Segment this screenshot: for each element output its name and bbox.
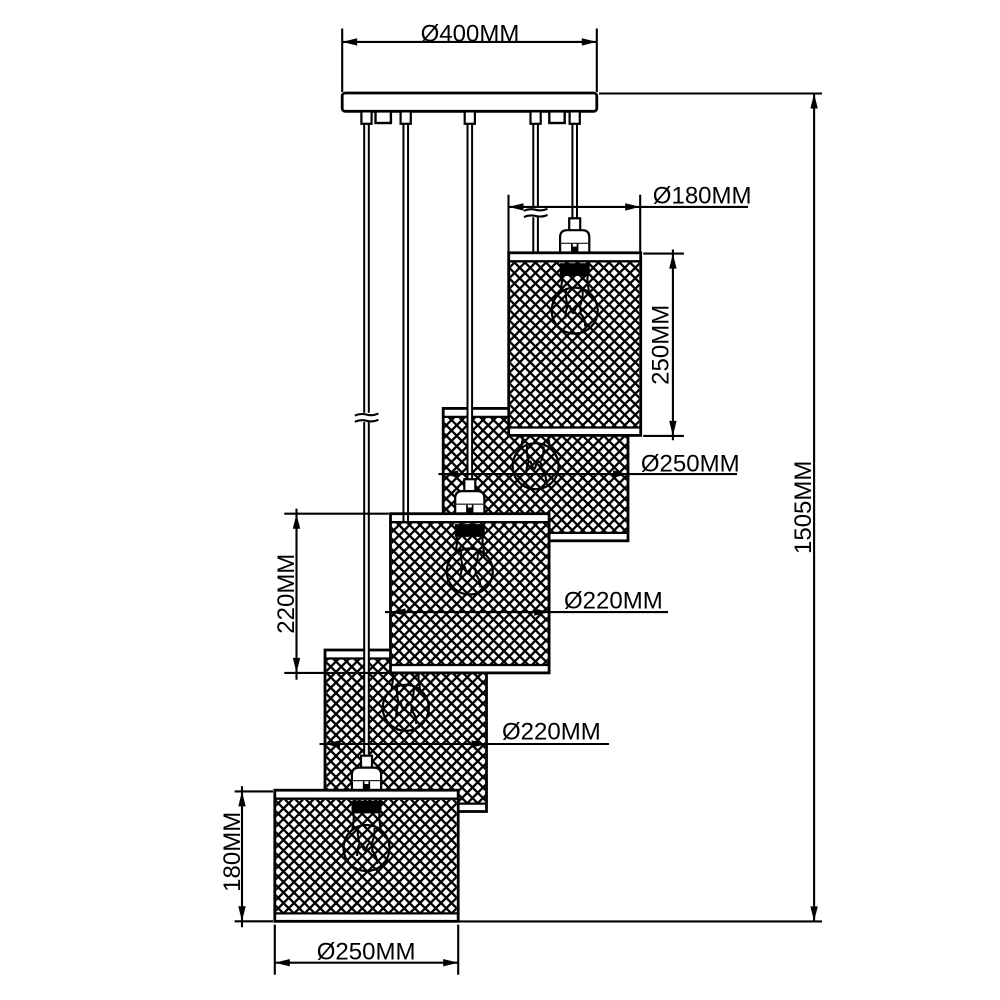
- dimension D250MM (bottom) extension lines: [275, 925, 458, 975]
- shade S3 bulb: [456, 537, 457, 553]
- dimension D250MM (S2) line: [439, 473, 738, 475]
- shade S5 body: [275, 790, 458, 921]
- svg-text:Ø180MM: Ø180MM: [653, 183, 752, 210]
- svg-text:180MM: 180MM: [219, 812, 246, 892]
- shade S1 mesh: [510, 262, 639, 426]
- shade S1 bands: [509, 261, 641, 427]
- cord B stub over S3 top band: [403, 512, 408, 522]
- cord B (to shade S4): [403, 123, 408, 616]
- shade S1 bulb: [561, 276, 562, 292]
- cord E (to shade S1): [572, 123, 577, 219]
- shade S4 bands: [325, 659, 487, 804]
- shade S4 cap (hidden behind S3): [400, 616, 411, 628]
- dimension D400MM line: [342, 41, 597, 43]
- shade S5 bands: [275, 799, 458, 914]
- shade S5 mesh: [276, 800, 457, 913]
- shade S1 cap: [569, 218, 580, 230]
- cord D break symbol: [524, 208, 548, 217]
- dimension 250MM line: [672, 250, 674, 441]
- shade S2 bands: [443, 417, 628, 533]
- dimension 220MM line: [295, 509, 297, 680]
- shade S4 socket: [391, 660, 421, 673]
- shade S4 bulb: [392, 673, 393, 689]
- svg-text:220MM: 220MM: [273, 554, 300, 634]
- dimension 180MM line: [241, 786, 243, 927]
- cord D (to shade S2): [533, 123, 538, 374]
- canopy cord grip: [361, 111, 371, 123]
- cord C (to shade S3): [468, 123, 473, 480]
- canopy cord grip: [401, 111, 411, 123]
- dimension D220MM (S3) line: [385, 611, 668, 613]
- shade S2 body: [443, 408, 628, 540]
- cord A break symbol: [355, 413, 379, 422]
- shade S5 socket: [352, 801, 382, 814]
- canopy cord grip: [465, 111, 475, 123]
- shade S2 bulb: [522, 432, 523, 448]
- dimension 1505MM extension lines: [460, 94, 823, 922]
- svg-text:Ø400MM: Ø400MM: [421, 20, 520, 47]
- dimension D220MM (S4) line: [320, 743, 610, 745]
- shade S1 body: [509, 253, 641, 436]
- shade S4 mesh: [326, 660, 485, 803]
- svg-text:1505MM: 1505MM: [790, 461, 817, 554]
- shade S3 body: [391, 514, 550, 673]
- dimension 1505MM line: [813, 94, 815, 922]
- canopy hook bracket: [549, 111, 564, 123]
- canopy cord grip: [570, 111, 580, 123]
- dimension 250MM ticks: [643, 254, 684, 436]
- shade S4 body: [325, 650, 487, 812]
- canopy ceiling plate: [342, 93, 597, 111]
- shade S3 bands: [391, 522, 550, 665]
- dimension 180MM ticks: [235, 791, 273, 921]
- shade S3 cap: [464, 479, 475, 491]
- dimension D180MM extension lines: [509, 195, 641, 252]
- shade S3 mesh: [392, 523, 548, 664]
- dimension 220MM ticks: [284, 514, 389, 673]
- shade S5 cap: [361, 756, 372, 768]
- canopy cord grip: [531, 111, 541, 123]
- shade S2 cap (hidden behind S1): [530, 374, 541, 386]
- svg-text:Ø220MM: Ø220MM: [502, 719, 601, 746]
- svg-text:250MM: 250MM: [648, 305, 675, 385]
- dimension D180MM line: [509, 206, 749, 208]
- shade S2 mesh: [445, 418, 627, 532]
- shade S1 socket: [560, 263, 590, 276]
- shade S3 socket: [455, 524, 485, 537]
- svg-text:Ø250MM: Ø250MM: [641, 451, 740, 478]
- cord A (to shade S5): [364, 123, 369, 756]
- canopy hook bracket: [376, 111, 391, 123]
- dimension D400MM extension lines: [342, 29, 597, 93]
- shade S5 bulb: [352, 813, 353, 829]
- shade S2 socket: [521, 419, 551, 432]
- svg-text:Ø220MM: Ø220MM: [564, 588, 663, 615]
- svg-text:Ø250MM: Ø250MM: [317, 938, 416, 965]
- dimension D250MM (bottom) line: [275, 962, 458, 964]
